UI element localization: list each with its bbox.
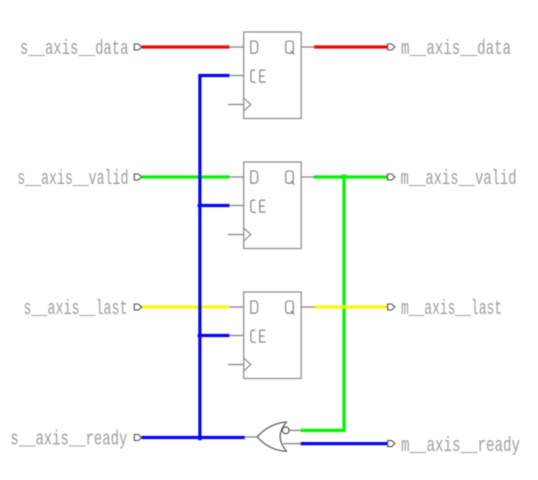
wire gray stub gate inverted input — [289, 429, 301, 431]
wire gray stub U1 clock — [228, 104, 244, 106]
svg-text:s__axis__ready: s__axis__ready — [10, 428, 127, 451]
wire gray stub gate lower input — [283, 443, 301, 445]
wire gray stub U1 CE input — [229, 75, 244, 77]
wire m_axis_last yellow — [314, 305, 388, 308]
port s__axis__ready — [134, 435, 141, 441]
svg-text:m__axis__last: m__axis__last — [401, 298, 502, 321]
svg-text:s__axis__last: s__axis__last — [23, 298, 127, 321]
wire gray stub U3 CE input — [229, 335, 244, 337]
wire m_axis_valid green with junction — [314, 175, 388, 178]
wire m_axis_ready blue into gate lower input — [301, 442, 388, 445]
wire gray stub U2 clock — [228, 234, 244, 236]
wire s_axis_valid green — [142, 175, 230, 178]
flip-flop U2 (valid register) — [244, 162, 302, 249]
svg-text:s__axis__data: s__axis__data — [20, 38, 129, 61]
svg-text:m__axis__valid: m__axis__valid — [401, 168, 517, 191]
port s__axis__valid — [134, 174, 141, 180]
port m__axis__data — [388, 44, 395, 50]
wire gray stub U3 clock — [228, 364, 244, 366]
wire gray stub U2 D input — [229, 176, 244, 178]
wire gray stub U1 D input — [229, 46, 244, 48]
port s__axis__data — [134, 44, 141, 50]
port m__axis__last — [388, 304, 395, 310]
port m__axis__ready — [388, 441, 395, 447]
flip-flop U1 (data register) — [244, 32, 302, 119]
flip-flop U3 (last register) — [244, 292, 302, 379]
wire m_axis_data red — [314, 45, 388, 48]
wire gray stub U2 Q output — [301, 176, 314, 178]
svg-text:s__axis__valid: s__axis__valid — [17, 168, 128, 191]
wire gray stub gate output — [245, 436, 257, 438]
wire gray stub U2 CE input — [229, 205, 244, 207]
wire s_axis_last yellow — [142, 305, 229, 308]
wire s_axis_data red — [142, 45, 230, 48]
port s__axis__last — [134, 304, 141, 310]
wire blue bus: s_axis_ready vertical distribution to CE pins — [200, 76, 230, 441]
port m__axis__valid — [388, 174, 395, 180]
wire s_axis_ready horizontal to gate output — [142, 436, 245, 439]
wire gray stub U3 Q output — [301, 306, 314, 308]
svg-text:m__axis__data: m__axis__data — [401, 38, 511, 61]
OR gate U4 (mirrored, inverted top input): s_axis_ready = !m_axis_valid + m_axis_ready — [257, 422, 289, 452]
wire gray stub U1 Q output — [301, 46, 314, 48]
svg-text:m__axis__ready: m__axis__ready — [401, 435, 520, 458]
wire gray stub U3 D input — [229, 306, 244, 308]
wire green branch m_axis_valid down to gate inverted input — [301, 174, 344, 430]
wire blue branch to U3 CE — [198, 334, 230, 337]
wire blue branch to U2 CE — [198, 204, 230, 207]
